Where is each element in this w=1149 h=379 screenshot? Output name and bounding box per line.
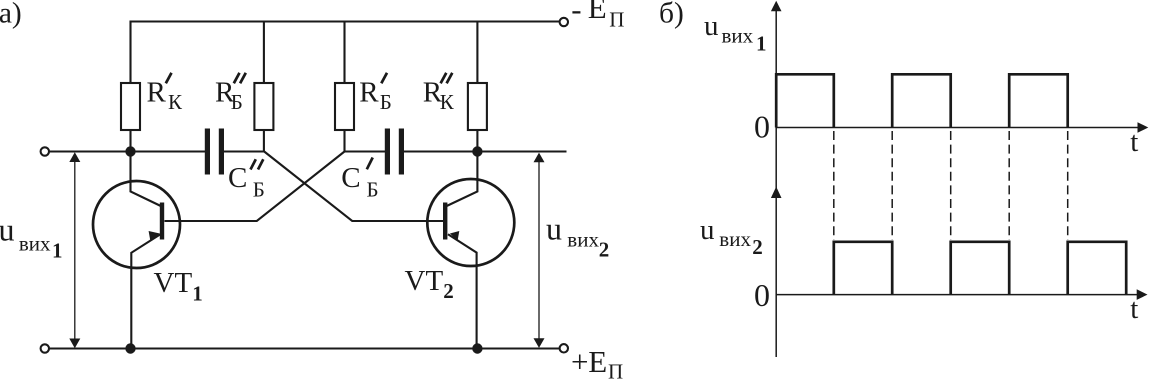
wire C'B to VT2 collector rail — [404, 150, 567, 152]
svg-text:-: - — [571, 0, 581, 27]
axis t2 arrow — [1137, 289, 1148, 300]
svg-text:C: C — [228, 162, 247, 194]
svg-text:E: E — [588, 344, 607, 379]
svg-text:u: u — [704, 10, 719, 42]
svg-text:2: 2 — [599, 237, 610, 261]
waveform u_vyh1 pulse 3 — [1009, 74, 1067, 127]
measurement arrow u_vyh1 — [69, 152, 80, 348]
resistor R''K — [468, 83, 487, 130]
wire cross-coupling R'B node to VT1 base — [165, 152, 345, 222]
wire top rail to R''K — [476, 22, 478, 84]
svg-text:П: П — [609, 7, 624, 31]
svg-text:u: u — [0, 212, 15, 248]
dashed timing line 3 — [950, 131, 952, 240]
wire top supply rail — [131, 20, 560, 22]
svg-text:К: К — [168, 90, 183, 114]
svg-text:VT: VT — [154, 267, 193, 299]
wire R''B bottom — [263, 130, 265, 152]
svg-text:R: R — [147, 77, 167, 109]
dashed timing line 1 — [833, 131, 835, 240]
svg-text:E: E — [588, 0, 607, 25]
dashed timing line 4 — [1008, 131, 1010, 240]
svg-text:0: 0 — [754, 277, 770, 313]
prime of R'K — [166, 73, 172, 84]
primes of R''K — [441, 73, 453, 84]
label VT2 — [405, 265, 454, 303]
node VT1 emitter junction — [125, 343, 135, 353]
label C'B — [341, 162, 378, 202]
wire output1 rail — [49, 150, 205, 152]
waveform u_vyh2 pulse 1 — [834, 242, 892, 295]
measurement arrow u_vyh2 — [534, 153, 545, 348]
svg-text:0: 0 — [754, 108, 770, 144]
waveform u_vyh1 pulse 2 — [892, 74, 951, 127]
primes of C''B — [251, 159, 264, 169]
label R'K — [147, 77, 184, 115]
prime of R'B — [381, 73, 387, 84]
capacitor C'B — [385, 129, 404, 175]
label C''B — [228, 162, 265, 202]
wire C''B to cross node — [224, 150, 264, 152]
label u_vyh2 graph — [700, 214, 763, 259]
svg-text:u: u — [700, 214, 715, 246]
svg-text:вих: вих — [722, 23, 754, 47]
dashed timing line 5 — [1067, 131, 1069, 240]
axis arrow graph2 — [771, 187, 782, 198]
resistor R'B — [335, 83, 354, 130]
label u_vyh2 — [546, 211, 609, 262]
terminal +Ep — [560, 344, 568, 352]
svg-text:C: C — [341, 162, 360, 194]
svg-text:вих: вих — [567, 227, 599, 251]
svg-text:Б: Б — [253, 178, 265, 202]
terminal -Ep — [560, 18, 568, 26]
label VT1 — [154, 267, 203, 306]
waveform u_vyh2 pulse 2 — [951, 242, 1010, 295]
svg-text:t: t — [1130, 126, 1138, 158]
wire cross-coupling C''B to VT2 base — [264, 152, 443, 222]
svg-text:а): а) — [0, 0, 22, 30]
transistor VT1 — [93, 152, 180, 349]
prime of C'B — [367, 158, 373, 170]
wire R'K to collector node — [129, 130, 131, 152]
wire R''K bottom — [476, 130, 478, 152]
svg-text:вих: вих — [19, 232, 51, 256]
waveform u_vyh1 pulse 1 — [776, 74, 834, 127]
wire top rail to R'K — [129, 21, 131, 84]
svg-text:П: П — [608, 360, 623, 379]
primes of R''B — [234, 73, 246, 84]
svg-text:Б: Б — [380, 90, 392, 114]
svg-text:1: 1 — [192, 282, 203, 306]
svg-text:u: u — [546, 211, 562, 247]
svg-text:2: 2 — [443, 279, 454, 303]
svg-text:t: t — [1130, 293, 1138, 325]
wire R'B bottom — [343, 130, 345, 152]
svg-text:R: R — [359, 77, 379, 109]
axis vertical (graphs) — [775, 7, 777, 358]
svg-text:К: К — [440, 90, 455, 114]
wire R'B node rail — [345, 150, 386, 152]
wire top rail to R'B — [343, 22, 345, 84]
node VT2 collector junction — [472, 146, 482, 156]
resistor R''B — [254, 83, 273, 130]
axis t1 — [776, 127, 1141, 129]
waveform u_vyh2 pulse 3 — [1068, 242, 1127, 295]
capacitor C''B — [205, 129, 224, 175]
node VT1 collector junction — [125, 146, 135, 156]
axis t2 — [776, 294, 1140, 296]
svg-text:2: 2 — [752, 235, 763, 259]
label u_vyh1 graph — [704, 10, 767, 55]
label R''B — [215, 77, 243, 115]
label u_vyh1 — [0, 212, 63, 263]
svg-text:Б: Б — [231, 90, 243, 114]
node VT2 emitter junction — [472, 343, 482, 353]
label -Ep — [571, 0, 624, 31]
wire bottom supply rail — [49, 347, 559, 349]
resistor R'K — [121, 83, 140, 130]
axis t1 arrow — [1138, 122, 1149, 133]
dashed timing line 2 — [891, 131, 893, 240]
wire top rail to R''B — [263, 22, 265, 84]
svg-text:б): б) — [659, 0, 684, 30]
label R''K — [423, 77, 455, 115]
svg-text:1: 1 — [52, 239, 63, 263]
svg-text:Б: Б — [367, 178, 379, 202]
svg-text:вих: вих — [719, 227, 751, 251]
label R'B — [359, 77, 392, 115]
svg-text:VT: VT — [405, 265, 444, 297]
terminal bottom left — [41, 344, 49, 352]
axis arrow top — [771, 1, 782, 12]
transistor VT2 — [427, 152, 514, 349]
svg-text:1: 1 — [756, 32, 767, 56]
svg-text:+: + — [571, 344, 588, 379]
terminal output 1 — [41, 147, 49, 155]
label +Ep — [571, 344, 623, 379]
